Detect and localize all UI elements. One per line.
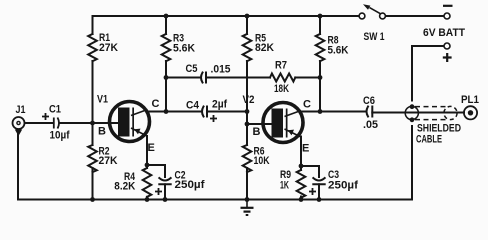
node rail R4: [145, 197, 150, 202]
ground: [241, 200, 254, 216]
node top rail R8: [318, 14, 323, 19]
wire top rail: [93, 15, 359, 17]
svg-text:R7: R7: [275, 60, 287, 72]
switch SW1: [359, 4, 385, 19]
resistor R5: [243, 34, 252, 61]
node C4 out: [245, 109, 250, 114]
wire shield drop to bottom rail: [411, 126, 413, 200]
resistor R7: [270, 74, 295, 82]
wire switch to minus terminal: [386, 15, 444, 17]
wire R7 right lead: [295, 77, 320, 79]
wire R3 branch top lead: [165, 16, 167, 34]
wire R5 bottom lead: [246, 61, 248, 112]
wire emitter node to C3: [301, 166, 319, 177]
node V1 collector: [164, 109, 169, 114]
svg-text:C: C: [152, 98, 160, 110]
svg-text:.015: .015: [211, 64, 231, 76]
node V1 emitter: [145, 163, 150, 168]
plus C3: [309, 188, 316, 195]
wire R8 bottom lead to V2 collector node: [319, 61, 321, 112]
wire R9 bottom lead: [300, 197, 302, 200]
resistor R3: [162, 34, 171, 61]
node R7-R8: [318, 75, 323, 80]
plus C2: [155, 188, 162, 195]
plug PL1: [464, 106, 477, 119]
svg-text:27K: 27K: [99, 42, 118, 54]
resistor R6: [243, 145, 252, 172]
node shield top: [410, 104, 415, 109]
svg-text:CABLE: CABLE: [416, 134, 442, 146]
wire R8 branch top lead: [319, 16, 321, 34]
resistor R1: [88, 34, 97, 61]
svg-text:B: B: [253, 126, 261, 138]
transistor V1: [110, 102, 150, 142]
resistor R2: [88, 145, 97, 172]
node rail R2: [90, 197, 95, 202]
wire V2 base node drop: [246, 112, 248, 125]
wire R1 bottom lead: [92, 61, 94, 123]
plus C4: [210, 115, 217, 122]
jack J1: [13, 117, 25, 136]
svg-text:27K: 27K: [99, 155, 118, 167]
plus C1: [42, 113, 49, 120]
svg-text:10µf: 10µf: [50, 130, 70, 142]
svg-text:C5: C5: [186, 63, 198, 75]
svg-text:E: E: [148, 142, 155, 154]
wire emitter node to C2: [147, 165, 165, 177]
svg-text:C: C: [303, 99, 311, 111]
wire V2 emitter down: [300, 137, 302, 167]
svg-text:1K: 1K: [280, 180, 289, 192]
wire V2 collector to C6: [301, 111, 367, 113]
svg-text:E: E: [302, 143, 309, 155]
svg-text:PL1: PL1: [461, 94, 479, 106]
capacitor C5: [201, 73, 206, 83]
capacitor C2: [159, 178, 170, 184]
resistor R9: [297, 170, 306, 198]
node V2 base: [245, 122, 250, 127]
battery plus terminal: [443, 43, 452, 62]
wire R9 top lead: [300, 166, 302, 170]
battery minus terminal: [443, 6, 453, 19]
node shield bottom: [410, 117, 415, 122]
wire R4 top lead: [146, 165, 148, 168]
resistor R8: [316, 34, 325, 61]
svg-text:5.6K: 5.6K: [328, 45, 349, 57]
wire R2 bottom lead: [92, 168, 94, 200]
wire plus terminal to vertical drop: [412, 46, 444, 101]
svg-text:5.6K: 5.6K: [173, 43, 195, 55]
svg-text:B: B: [98, 126, 106, 138]
wire base V2: [247, 123, 272, 125]
wire R6 top lead: [246, 124, 248, 145]
node rail C2: [163, 197, 168, 202]
node V2 collector: [318, 109, 323, 114]
wire base V1: [93, 122, 119, 124]
node top rail R5: [245, 14, 250, 19]
svg-text:SW 1: SW 1: [364, 31, 385, 43]
node V1 base: [90, 121, 95, 126]
svg-text:6V BATT: 6V BATT: [423, 27, 465, 39]
svg-text:C6: C6: [363, 95, 375, 107]
transistor V2: [263, 103, 303, 143]
node V2 emitter: [299, 164, 304, 169]
wire R1 branch top lead: [92, 16, 94, 34]
node rail R9: [299, 197, 304, 202]
wire C1 to base node: [60, 122, 93, 124]
wire input J1 to C1: [25, 122, 53, 124]
svg-text:10K: 10K: [254, 155, 270, 167]
capacitor C4: [202, 107, 207, 117]
shielded cable: [405, 106, 457, 119]
wire C2 bottom lead: [164, 184, 166, 199]
svg-text:82K: 82K: [255, 42, 274, 54]
svg-text:18K: 18K: [274, 83, 289, 95]
capacitor C3: [313, 178, 324, 184]
node rail C3: [317, 197, 322, 202]
wire C4 to V2 base node: [207, 111, 247, 113]
svg-text:V2: V2: [243, 94, 255, 106]
node C5 tap: [164, 75, 169, 80]
wire R6 bottom lead: [246, 168, 248, 200]
wire R2 top lead: [92, 123, 94, 145]
svg-text:J1: J1: [16, 104, 26, 116]
wire J1 down lead: [17, 131, 19, 200]
svg-text:2µf: 2µf: [212, 99, 227, 111]
wire bottom rail: [18, 199, 412, 201]
capacitor C6: [367, 107, 373, 117]
svg-text:250µf: 250µf: [328, 180, 358, 192]
resistor R4: [143, 168, 152, 197]
wire R4 bottom lead: [146, 197, 148, 200]
wire C5 left lead: [166, 77, 200, 79]
wire R5 branch top lead: [246, 16, 248, 34]
wire C6 to PL1 through cable: [372, 112, 464, 114]
wire V1 collector to C4: [148, 111, 202, 113]
wire C5 to R7: [206, 77, 270, 79]
node rail ground: [245, 197, 250, 202]
svg-text:250µf: 250µf: [175, 179, 205, 191]
wire C3 bottom lead: [318, 184, 320, 199]
svg-text:8.2K: 8.2K: [114, 180, 135, 192]
capacitor C1: [54, 118, 59, 129]
wire R3 bottom lead to collector node: [165, 61, 167, 112]
svg-text:C4: C4: [186, 100, 200, 112]
node top rail R3: [164, 14, 169, 19]
svg-text:.05: .05: [363, 119, 378, 131]
wire V1 emitter down: [146, 136, 148, 165]
svg-text:C1: C1: [49, 104, 61, 116]
svg-text:V1: V1: [97, 94, 108, 106]
